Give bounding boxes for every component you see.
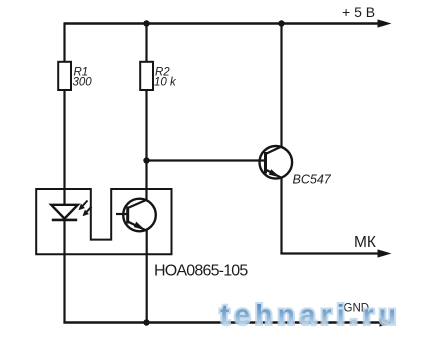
phototransistor base bar: [126, 207, 129, 224]
optocoupler LED cathode bar: [52, 219, 77, 222]
phototransistor base stub: [116, 213, 128, 215]
svg-text:МК: МК: [354, 234, 376, 251]
optocoupler LED triangle: [51, 205, 78, 219]
svg-text:+ 5 В: + 5 В: [342, 4, 375, 20]
svg-text:BC547: BC547: [293, 173, 332, 187]
wire Q1 emitter down: [280, 178, 282, 254]
resistor R1: [58, 62, 71, 90]
watermark tehnari.ru halo: [220, 302, 401, 330]
wire node A to opto phototransistor collector: [145, 161, 147, 202]
wire GND bottom rail: [63, 321, 382, 324]
wire LED cathode to GND rail: [63, 219, 65, 323]
junction dot opto emitter at GND rail: [143, 319, 149, 325]
junction dot node A: [143, 157, 149, 163]
Q1 emitter diagonal with arrow: [266, 170, 282, 178]
wire R1 top lead: [63, 22, 65, 62]
svg-text:HOA0865-105: HOA0865-105: [154, 263, 248, 280]
svg-text:300: 300: [73, 77, 93, 89]
optocoupler phototransistor body circle: [123, 199, 156, 232]
junction dot Q1 collector at rail: [278, 20, 284, 26]
optocoupler U1 slotted box outline: [36, 189, 171, 254]
light emission arrow 1: [79, 201, 88, 211]
watermark tehnari.ru: [220, 302, 401, 330]
transistor Q1 BC547 body circle: [260, 146, 293, 179]
+5V rail arrowhead: [378, 19, 392, 27]
wire R1 bottom to LED anode: [63, 90, 65, 205]
Q1 collector diagonal: [266, 147, 282, 155]
wire +5V top rail: [64, 22, 381, 25]
svg-text:10 k: 10 k: [154, 77, 177, 89]
wire R2 top lead: [145, 24, 147, 63]
wire R2 bottom to node A: [145, 90, 147, 161]
wire Q1 collector to +5V rail: [280, 24, 282, 148]
Q1 base bar: [264, 152, 267, 174]
resistor R2: [140, 62, 153, 90]
wire node A to Q1 base: [147, 159, 266, 161]
GND rail arrowhead: [380, 318, 394, 326]
wire MK output line: [280, 252, 380, 254]
phototransistor collector diagonal: [128, 200, 147, 208]
light emission arrow 2: [83, 207, 92, 217]
wire opto emitter to GND rail: [146, 230, 148, 323]
junction dot node R2 top: [143, 20, 149, 26]
MK arrowhead: [378, 249, 392, 257]
phototransistor emitter diagonal with arrow: [128, 222, 147, 231]
